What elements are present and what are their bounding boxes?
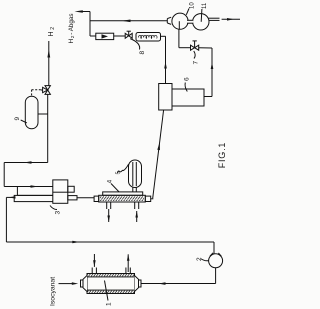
- svg-text:11: 11: [202, 2, 208, 9]
- svg-text:2: 2: [50, 27, 56, 30]
- svg-text:1: 1: [106, 302, 113, 306]
- svg-text:8: 8: [139, 51, 146, 55]
- svg-text:- Abgas: - Abgas: [68, 13, 75, 34]
- svg-text:H: H: [68, 39, 75, 44]
- svg-text:10: 10: [190, 2, 196, 9]
- svg-text:2: 2: [196, 257, 203, 261]
- svg-text:5: 5: [116, 171, 122, 174]
- svg-text:7: 7: [193, 61, 200, 65]
- svg-text:3: 3: [55, 211, 62, 215]
- svg-text:H: H: [48, 31, 55, 36]
- svg-text:6: 6: [184, 77, 191, 81]
- svg-text:9: 9: [14, 117, 21, 121]
- svg-text:FIG.1: FIG.1: [217, 142, 227, 169]
- svg-text:Isocyanat: Isocyanat: [50, 277, 57, 306]
